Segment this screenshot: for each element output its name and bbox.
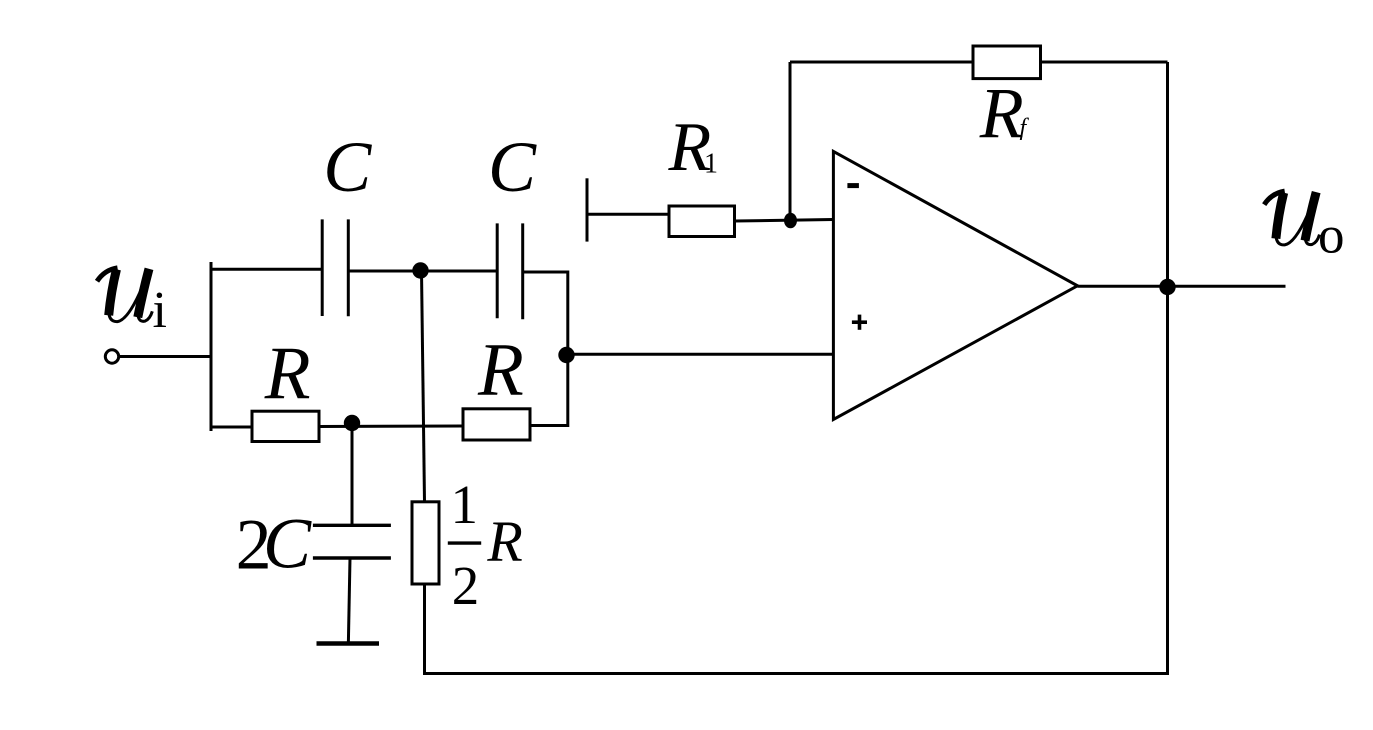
resistor Rf (feedback)	[973, 46, 1041, 79]
svg-text:i: i	[153, 282, 167, 339]
wire: second capacitor to right rail	[523, 271, 568, 274]
label C (second capacitor)	[488, 127, 537, 207]
svg-text:1: 1	[704, 148, 718, 179]
input bar terminal of R1	[586, 178, 589, 241]
label R1	[668, 109, 719, 186]
op-amp inverting pin marker (-)	[847, 183, 859, 188]
svg-text:1: 1	[451, 474, 479, 535]
wire: left rail to resistor R (bottom branch)	[210, 426, 253, 429]
op-amp non-inverting pin marker (+)	[852, 315, 867, 330]
wire: output rail (vertical, output node down to bottom return)	[1166, 62, 1169, 675]
node C (bottom-center junction)	[344, 415, 360, 431]
input terminal (open circle)	[105, 350, 118, 363]
wire: feedback left vertical down to inverting node	[789, 62, 792, 220]
wire: feedback top (inverting node to output rail)	[790, 61, 1168, 64]
label u_i	[153, 282, 167, 339]
svg-text:R: R	[264, 332, 311, 415]
label 2C	[236, 504, 312, 585]
svg-text:R: R	[477, 329, 524, 412]
svg-text:C: C	[488, 127, 537, 207]
svg-text:2: 2	[452, 555, 480, 616]
node E (output junction)	[1159, 279, 1175, 295]
capacitor 2C	[313, 525, 391, 558]
wire: capacitor C to capacitor C through node A	[348, 270, 497, 273]
svg-text:C: C	[323, 127, 372, 207]
svg-text:C: C	[263, 504, 312, 584]
wire: input terminal to left rail	[120, 355, 213, 358]
op-amp U1 (triangle)	[833, 151, 1077, 419]
wire: resistor R to node C	[319, 425, 463, 429]
wire: bottom return (half-R to output rail)	[423, 672, 1169, 675]
capacitor C (second, top branch)	[497, 223, 523, 319]
resistor 1/2 R (vertical)	[412, 502, 439, 584]
wire: node C down to capacitor 2C	[351, 427, 354, 525]
svg-text:o: o	[1318, 206, 1345, 264]
label 1/2 R (fraction)	[451, 474, 523, 616]
label C (first capacitor)	[323, 127, 372, 207]
ground	[317, 641, 380, 646]
label u_o	[1318, 206, 1345, 264]
node B (non-inverting input junction)	[558, 347, 574, 363]
node D (inverting input junction)	[784, 213, 797, 229]
resistor R1	[669, 206, 735, 237]
resistor R (second, bottom branch)	[463, 409, 530, 440]
svg-text:R: R	[486, 509, 522, 574]
wire: 1/2 R resistor down to bottom return	[423, 584, 426, 675]
node A (top-center junction)	[412, 262, 428, 278]
resistor R (first, bottom branch)	[252, 411, 319, 441]
label R (first resistor)	[264, 332, 311, 415]
label Rf	[979, 73, 1030, 153]
wire: second resistor R to right rail	[530, 424, 569, 427]
wire: left rail to capacitor C (top branch)	[210, 268, 323, 271]
capacitor C (first, top branch)	[322, 219, 348, 316]
fraction bar of 1/2 R label	[448, 541, 481, 544]
svg-text:f: f	[1020, 115, 1030, 141]
wire: bar terminal to resistor R1	[589, 213, 670, 216]
wire: node B to op-amp + input	[568, 353, 833, 356]
wire: resistor R1 to op-amp inverting input	[735, 220, 834, 222]
wire: capacitor 2C to ground	[348, 558, 350, 642]
wire: right rail of twin-T	[566, 271, 569, 428]
wire: left rail (input node)	[210, 262, 213, 431]
wire: op-amp output	[1078, 285, 1286, 288]
label R (second resistor)	[477, 329, 524, 412]
svg-text:R: R	[979, 73, 1024, 153]
wire: node A down to half-R resistor	[422, 271, 425, 502]
